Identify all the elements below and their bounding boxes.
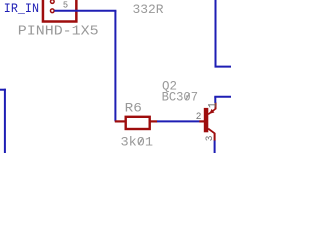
svg-text:BC307: BC307 [162, 90, 198, 105]
svg-text:R6: R6 [125, 101, 142, 116]
transistor Q2 emitter stub [215, 102, 217, 109]
wire collector to bottom [214, 141, 216, 154]
wire pin5 horizontal [54, 10, 116, 12]
transistor Q2 base pin [199, 120, 204, 122]
connector pinhead box [43, 0, 76, 22]
slash of zero in 3k01 [139, 138, 143, 145]
slash of zero in BC307 [186, 93, 190, 100]
transistor Q2 collector stub [214, 133, 216, 141]
wire left edge vertical [4, 89, 6, 153]
wire top right horizontal [215, 66, 232, 68]
svg-text:332R: 332R [133, 2, 164, 17]
wire top right vertical [215, 0, 217, 67]
pin 5 circle [50, 9, 54, 13]
wire resistor to base [157, 120, 200, 122]
wire emitter vertical [214, 97, 216, 103]
wire left edge horizontal [0, 89, 6, 91]
wire emitter horizontal [214, 96, 231, 98]
resistor R6 body [126, 117, 150, 129]
pin 4 circle [50, 0, 54, 3]
transistor Q2 collector diagonal [208, 129, 214, 134]
transistor Q2 base bar [204, 108, 209, 132]
transistor Q2 emitter diagonal [208, 109, 215, 114]
svg-text:3: 3 [204, 135, 215, 141]
svg-text:2: 2 [196, 111, 202, 122]
wire vertical to resistor [114, 11, 116, 122]
svg-text:3k01: 3k01 [121, 135, 154, 150]
resistor R6 left pin [115, 120, 126, 122]
transistor Q2 emitter arrow [209, 109, 214, 114]
svg-text:IR_IN: IR_IN [4, 1, 39, 16]
svg-text:1: 1 [208, 102, 220, 108]
svg-text:PINHD-1X5: PINHD-1X5 [18, 25, 99, 40]
resistor R6 right pin [150, 120, 158, 122]
svg-text:5: 5 [63, 0, 68, 10]
